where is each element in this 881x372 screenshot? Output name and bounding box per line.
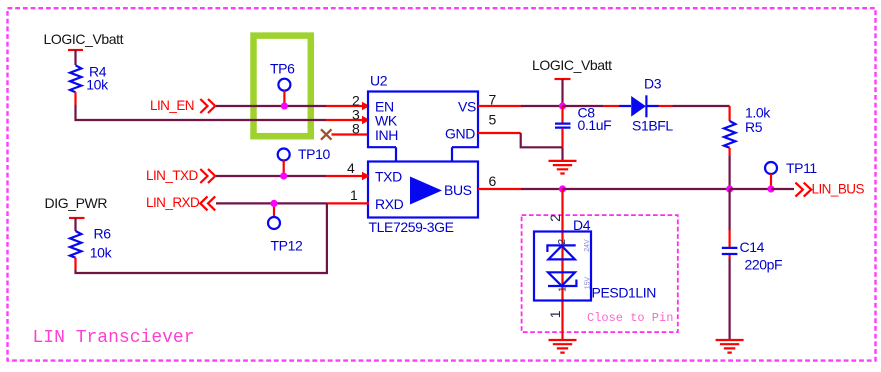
svg-text:TLE7259-3GE: TLE7259-3GE: [369, 219, 454, 235]
svg-text:U2: U2: [370, 73, 388, 89]
svg-text:BUS: BUS: [444, 182, 472, 198]
no connect X on INH: [321, 129, 332, 139]
wire to ground under C8: [561, 147, 563, 160]
wire bus segment: [563, 188, 730, 190]
ground under C8: [549, 161, 577, 174]
svg-text:LIN_BUS: LIN_BUS: [812, 182, 865, 197]
pin number 4: [347, 160, 355, 176]
svg-text:S1BFL: S1BFL: [632, 118, 673, 134]
U2 connector tabs: [396, 147, 452, 161]
title text: [33, 328, 195, 348]
svg-text:TP12: TP12: [271, 238, 303, 254]
junction node VS/C8: [559, 102, 566, 109]
pin number 5: [489, 112, 497, 128]
svg-text:LIN_TXD: LIN_TXD: [146, 168, 198, 183]
wire INH pin 8: [332, 133, 369, 135]
svg-text:TXD: TXD: [375, 169, 402, 185]
wire bus segment 2: [730, 188, 771, 190]
wire WK pin 3 with arrow: [326, 116, 370, 124]
test point TP11: [765, 160, 817, 189]
svg-text:10k: 10k: [90, 244, 113, 260]
power port LOGIC_Vbatt (center): [532, 57, 612, 106]
svg-text:1: 1: [350, 187, 358, 203]
wire R4 to WK pin 3: [76, 92, 327, 120]
svg-text:Close to Pin: Close to Pin: [587, 311, 673, 325]
svg-text:6: 6: [489, 173, 497, 189]
highlight box (green) around TP6: [254, 36, 311, 137]
IC U2 lower block TLE7259-3GE (TXD/RXD/BUS): [368, 162, 478, 236]
svg-text:PESD1LIN: PESD1LIN: [592, 285, 657, 301]
svg-text:DIG_PWR: DIG_PWR: [45, 195, 108, 211]
svg-text:D4: D4: [573, 217, 591, 233]
pin number 3: [352, 107, 360, 123]
resistor R5: [724, 105, 771, 148]
junction node BUS/R5/C14: [726, 185, 733, 192]
junction node BUS/D4: [559, 185, 566, 192]
svg-text:R5: R5: [745, 119, 763, 135]
svg-text:VS: VS: [458, 99, 476, 115]
svg-text:LIN_EN: LIN_EN: [150, 98, 194, 113]
svg-text:TP11: TP11: [786, 160, 817, 176]
pin 2 arrow: [362, 102, 370, 110]
wire VS to D3: [563, 105, 620, 107]
svg-text:D3: D3: [644, 76, 662, 92]
svg-text:7: 7: [489, 92, 497, 108]
wire LIN_EN net: [216, 105, 362, 107]
svg-text:0.1uF: 0.1uF: [578, 117, 612, 133]
wire BUS down through D4 to ground: [561, 189, 563, 340]
junction node TP6: [281, 102, 288, 109]
svg-text:LIN_RXD: LIN_RXD: [146, 195, 200, 210]
wire D3 to R5: [659, 106, 730, 121]
pin number 8: [352, 121, 360, 137]
wire RXD net: [216, 202, 369, 204]
svg-text:INH: INH: [375, 127, 398, 143]
svg-text:10k: 10k: [86, 76, 109, 92]
power port LOGIC_Vbatt (left): [44, 31, 124, 65]
pin 4 arrow: [362, 172, 370, 180]
svg-text:220pF: 220pF: [745, 257, 783, 273]
test point TP6: [270, 61, 295, 107]
TVS diode D4 PESD1LIN: [547, 214, 563, 222]
svg-text:LOGIC_Vbatt: LOGIC_Vbatt: [532, 57, 612, 73]
wire to port: [771, 188, 794, 190]
svg-text:R6: R6: [94, 226, 112, 242]
svg-text:RXD: RXD: [375, 196, 404, 212]
junction node TP10: [280, 172, 287, 179]
wire R6 to RXD net: [76, 203, 327, 273]
junction node TP11: [767, 185, 774, 192]
pin number 6: [489, 173, 497, 189]
svg-text:LIN Transciever: LIN Transciever: [33, 328, 195, 348]
svg-text:GND: GND: [445, 126, 475, 142]
ground under D4: [549, 340, 577, 353]
pin number 7: [489, 92, 497, 108]
resistor R4: [70, 64, 109, 93]
pin 5 wire GND: [478, 133, 563, 147]
svg-text:1: 1: [558, 286, 569, 292]
svg-text:TP6: TP6: [270, 61, 295, 77]
svg-text:4: 4: [347, 160, 355, 176]
test point TP10: [278, 146, 331, 176]
svg-text:LOGIC_Vbatt: LOGIC_Vbatt: [44, 31, 124, 47]
IC U2 upper block (EN/WK/INH/VS/GND): [368, 73, 478, 148]
port LIN_BUS: [795, 182, 864, 197]
svg-text:15V: 15V: [584, 277, 591, 290]
svg-text:TP10: TP10: [298, 146, 330, 162]
pin number 1: [350, 187, 358, 203]
port LIN_EN: [150, 98, 215, 113]
resistor R6: [70, 226, 113, 261]
svg-text:5: 5: [489, 112, 497, 128]
pin number 2: [352, 93, 360, 109]
pin 6 wire BUS: [478, 188, 563, 190]
svg-text:1: 1: [547, 310, 563, 318]
svg-text:24V: 24V: [584, 239, 591, 252]
svg-text:2: 2: [557, 239, 568, 245]
capacitor C14: [722, 189, 782, 273]
pin 7 wire VS: [478, 105, 563, 107]
wire TXD net: [216, 175, 362, 177]
note box Close to Pin: [522, 215, 678, 332]
test point TP12: [268, 203, 303, 253]
ground under C14: [716, 340, 744, 353]
wire R5 to bus: [728, 148, 730, 189]
svg-text:8: 8: [352, 121, 360, 137]
svg-text:C14: C14: [740, 239, 765, 255]
port LIN_TXD: [146, 168, 215, 183]
capacitor C8: [555, 105, 611, 148]
svg-text:2: 2: [547, 214, 563, 222]
port LIN_RXD: [146, 195, 215, 210]
wire C14 to ground: [728, 259, 730, 340]
diode D3: [619, 76, 673, 134]
junction node TP12: [270, 200, 277, 207]
power port DIG_PWR: [45, 195, 108, 231]
